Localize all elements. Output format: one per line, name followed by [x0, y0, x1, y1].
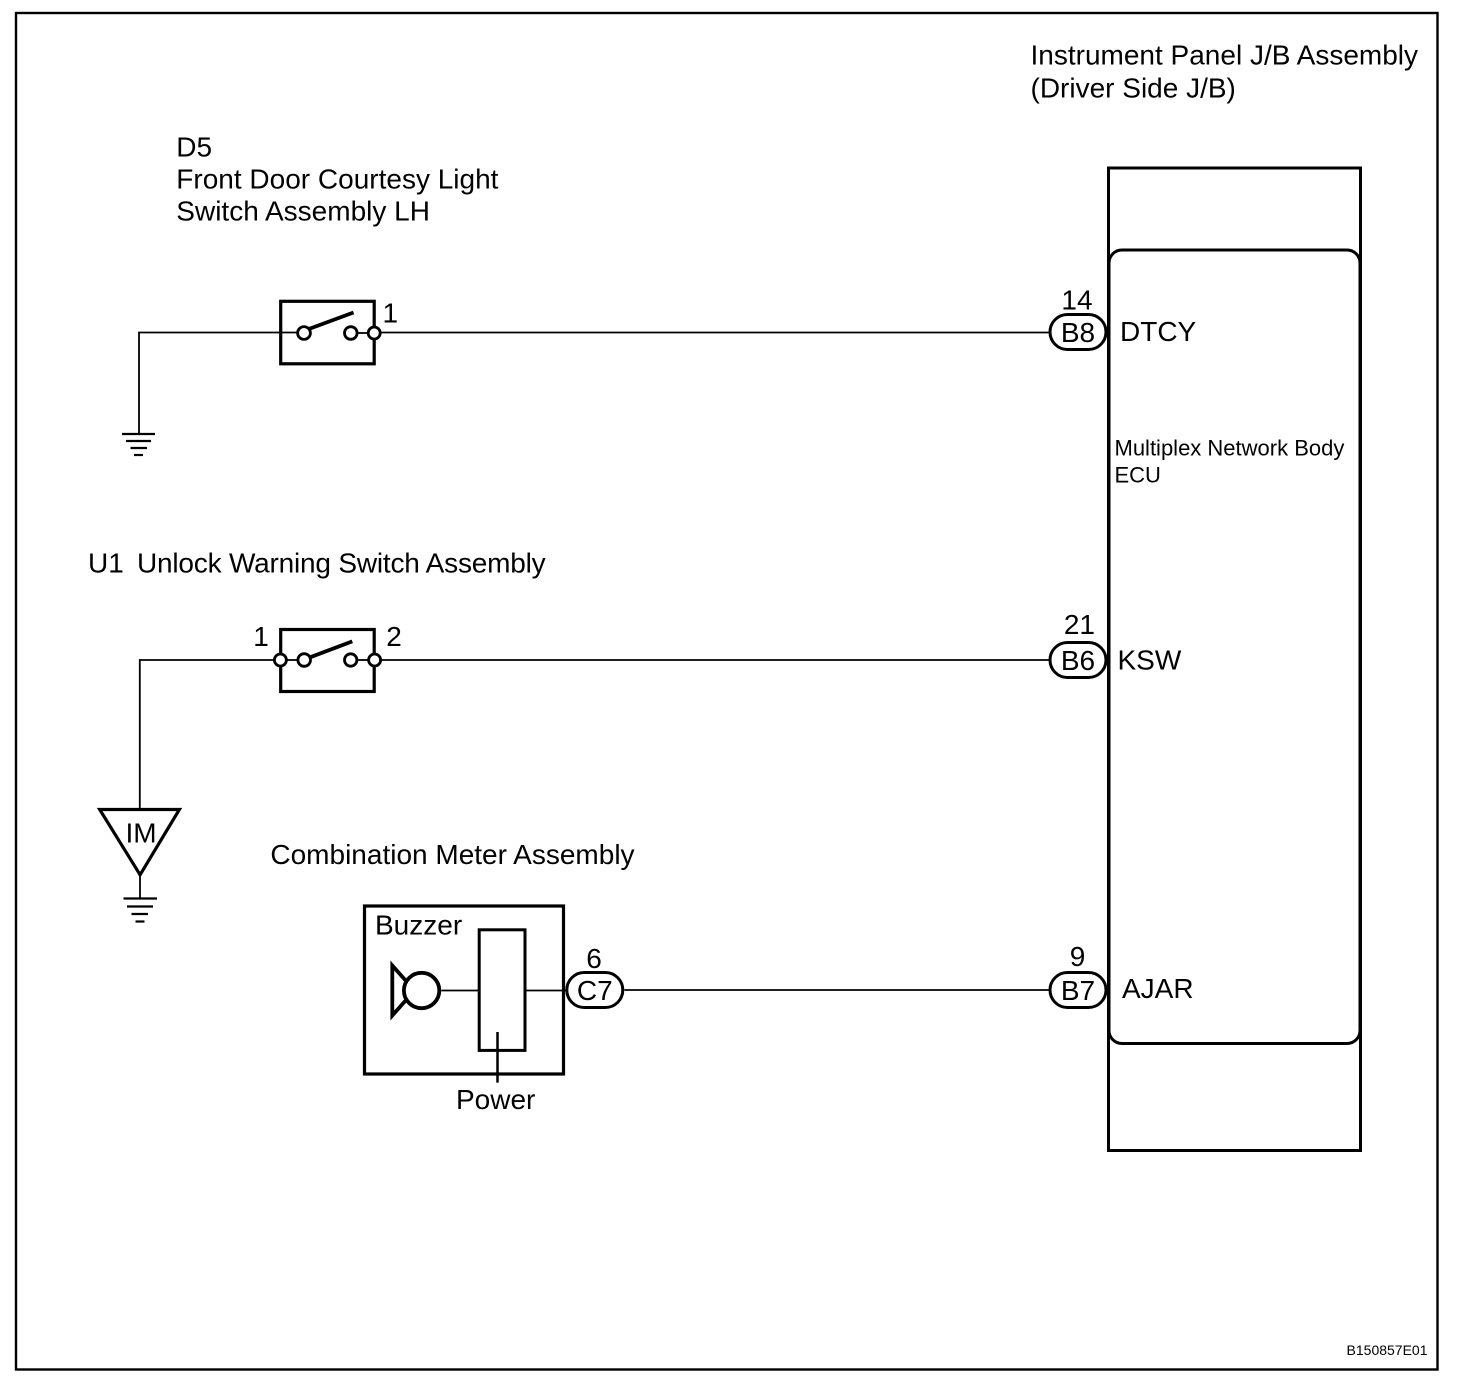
wire: switch D5 to B8: [380, 332, 1049, 334]
wire: IM apex to ground: [139, 875, 141, 898]
svg-text:B7: B7: [1061, 975, 1095, 1006]
wire: ground riser to switch U1: [140, 660, 275, 810]
svg-text:KSW: KSW: [1118, 645, 1182, 676]
label: Instrument Panel J/B Assembly: [1031, 40, 1419, 104]
svg-text:AJAR: AJAR: [1122, 973, 1194, 1004]
svg-text:Multiplex Network Body: Multiplex Network Body: [1115, 435, 1345, 460]
svg-text:Instrument Panel J/B Assembly: Instrument Panel J/B Assembly: [1031, 40, 1419, 71]
wire: third contact to right edge contact: [357, 659, 369, 661]
svg-text:B8: B8: [1061, 317, 1095, 348]
contact circle left: [298, 327, 311, 340]
contact circle middle: [345, 327, 358, 340]
svg-text:(Driver Side J/B): (Driver Side J/B): [1031, 72, 1236, 103]
connector B6: [1050, 643, 1106, 678]
wire: speaker to power block: [441, 990, 479, 992]
IM triangle (ignition main relay node): [100, 810, 180, 875]
combination meter box: [365, 906, 564, 1074]
svg-text:1: 1: [253, 621, 269, 652]
svg-text:21: 21: [1064, 609, 1095, 640]
buzzer speaker icon: [392, 966, 439, 1016]
wire: switch U1 to B6: [381, 659, 1049, 661]
svg-text:Power: Power: [456, 1084, 535, 1115]
svg-text:C7: C7: [577, 975, 613, 1006]
svg-text:ECU: ECU: [1115, 462, 1161, 487]
switch U1 (Unlock Warning Switch): [274, 630, 380, 692]
ground (below IM triangle): [124, 899, 158, 922]
svg-text:B6: B6: [1061, 645, 1095, 676]
connector B7: [1050, 973, 1106, 1008]
power pointer line: [496, 1032, 499, 1083]
switch arm: [308, 313, 354, 330]
svg-text:6: 6: [586, 943, 602, 974]
svg-text:14: 14: [1061, 285, 1092, 316]
wire: box edge to contact: [281, 332, 298, 334]
svg-text:Front Door Courtesy Light: Front Door Courtesy Light: [176, 163, 498, 194]
svg-text:Unlock Warning Switch Assembly: Unlock Warning Switch Assembly: [137, 548, 546, 579]
wire: power block to C7: [525, 990, 567, 992]
ECU outer box (Instrument Panel J/B): [1109, 168, 1361, 1151]
contact circle third: [345, 654, 357, 666]
switch D5 (Front Door Courtesy Light Switch): [281, 301, 381, 364]
label: Multiplex Network Body ECU: [1115, 435, 1345, 487]
contact circle second: [298, 654, 311, 667]
svg-text:D5: D5: [176, 131, 212, 162]
wire: middle to right contact: [357, 332, 368, 334]
wire: C7 to B7: [625, 989, 1050, 991]
wire: ground riser to switch D5: [139, 333, 281, 434]
connector C7: [567, 973, 623, 1008]
contact circle on right edge (pin 2): [369, 654, 381, 666]
contact circle right (pin 1): [368, 327, 380, 339]
wire: left contact to second contact: [286, 659, 298, 661]
svg-text:Switch Assembly LH: Switch Assembly LH: [176, 196, 430, 227]
svg-text:DTCY: DTCY: [1120, 316, 1197, 347]
svg-text:IM: IM: [125, 818, 156, 849]
label: D5 Front Door Courtesy Light Switch Assembly LH: [176, 131, 498, 226]
power block: [479, 930, 525, 1051]
svg-text:2: 2: [386, 621, 402, 652]
switch arm: [309, 641, 352, 657]
svg-text:Buzzer: Buzzer: [375, 910, 462, 941]
ground (below switch D5): [122, 434, 155, 455]
svg-text:Combination Meter Assembly: Combination Meter Assembly: [270, 839, 634, 870]
ECU inner rounded box (Multiplex Network Body ECU): [1109, 250, 1360, 1044]
svg-text:1: 1: [383, 298, 399, 329]
svg-text:U1: U1: [88, 548, 124, 579]
connector B8: [1050, 315, 1106, 350]
svg-text:B150857E01: B150857E01: [1347, 1342, 1428, 1358]
contact circle on left edge (pin 1): [274, 654, 286, 666]
svg-text:9: 9: [1070, 941, 1086, 972]
